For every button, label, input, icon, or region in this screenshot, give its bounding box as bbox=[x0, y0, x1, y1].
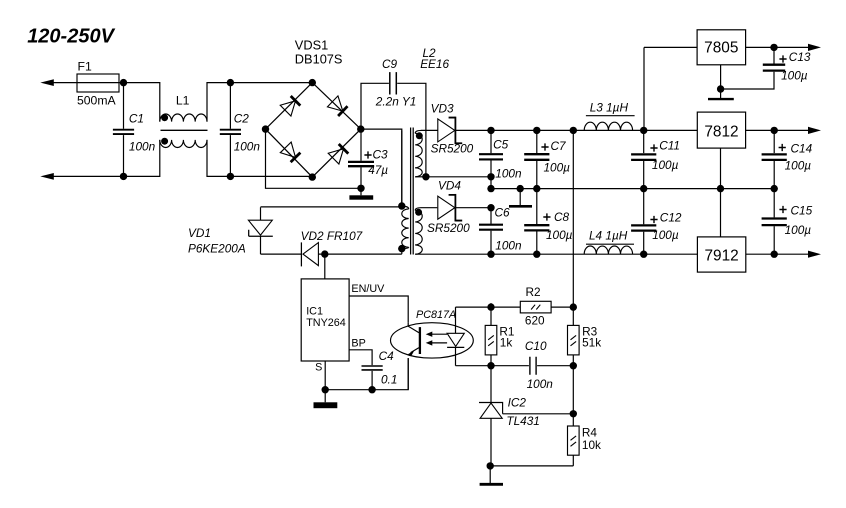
node C7 top bbox=[533, 127, 540, 134]
wire 7805 feed bbox=[643, 47, 645, 130]
svg-text:C13: C13 bbox=[789, 50, 811, 64]
node C3 ground bbox=[357, 185, 364, 192]
diode VD2 bbox=[300, 242, 302, 266]
node feedback tap bbox=[570, 127, 577, 134]
node R3 bottom bbox=[570, 362, 577, 369]
svg-text:620: 620 bbox=[525, 314, 545, 328]
wire C9 right to secondary common bbox=[397, 83, 426, 177]
wire L1 bottom out bbox=[207, 140, 312, 177]
ground secondary TL431 bbox=[489, 466, 491, 483]
wire node A bbox=[426, 176, 491, 178]
capacitor C3 bbox=[348, 162, 374, 166]
ground primary below C3 bbox=[360, 188, 362, 195]
svg-text:100n: 100n bbox=[527, 377, 554, 391]
wire clamp bottom left bbox=[261, 253, 302, 255]
arrow 5V output bbox=[808, 44, 821, 51]
wire top rail bbox=[456, 129, 698, 131]
svg-text:L1: L1 bbox=[176, 93, 190, 107]
node bridge right bbox=[357, 125, 364, 132]
svg-text:VD3: VD3 bbox=[431, 102, 454, 116]
inductor L3 bbox=[584, 122, 632, 130]
ground secondary mid bbox=[519, 189, 521, 206]
svg-text:100µ: 100µ bbox=[544, 161, 571, 175]
pin S wire bbox=[324, 361, 326, 390]
wire top AC from arrow to fuse bbox=[46, 82, 77, 84]
inductor L4 bbox=[584, 246, 632, 254]
svg-text:F1: F1 bbox=[78, 60, 92, 74]
svg-text:100µ: 100µ bbox=[546, 228, 573, 242]
secondary winding top bbox=[415, 130, 421, 133]
node L3 out bbox=[640, 127, 647, 134]
bridge diode bottom-left bbox=[280, 142, 301, 163]
svg-text:100µ: 100µ bbox=[652, 158, 679, 172]
node C6 bottom bbox=[487, 251, 494, 258]
wire VD4 cathode bbox=[456, 207, 492, 209]
node R1 bottom bbox=[487, 362, 494, 369]
svg-text:120-250V: 120-250V bbox=[27, 26, 115, 48]
diode VD4 schottky bbox=[438, 194, 462, 222]
resistor R2 bbox=[491, 306, 520, 308]
svg-text:100n: 100n bbox=[495, 167, 522, 181]
svg-text:VDS1: VDS1 bbox=[295, 38, 328, 53]
bridge diamond wires bbox=[266, 83, 361, 178]
svg-text:500mA: 500mA bbox=[77, 94, 116, 108]
wire 7805 input bbox=[644, 46, 697, 48]
svg-text:IC2: IC2 bbox=[508, 395, 527, 409]
svg-text:VD2 FR107: VD2 FR107 bbox=[301, 229, 363, 243]
wire stub above R2 node bbox=[490, 303, 492, 307]
wire TL431 ref bbox=[503, 413, 574, 415]
node bridge top bbox=[309, 79, 316, 86]
L1 core line bbox=[161, 129, 208, 131]
wire clamp top bbox=[261, 206, 402, 208]
node C1 bottom bbox=[120, 173, 127, 180]
arrow -12V output bbox=[808, 251, 821, 258]
svg-text:TNY264: TNY264 bbox=[306, 317, 346, 329]
svg-text:100µ: 100µ bbox=[785, 223, 812, 237]
svg-text:100n: 100n bbox=[234, 139, 261, 153]
svg-text:L4 1µH: L4 1µH bbox=[589, 229, 628, 243]
node bridge bottom bbox=[309, 173, 316, 180]
svg-text:IC1: IC1 bbox=[306, 306, 323, 318]
capacitor C8 bbox=[536, 189, 538, 225]
wire VD4 anode bbox=[421, 207, 437, 209]
svg-text:7805: 7805 bbox=[704, 40, 738, 57]
svg-text:S: S bbox=[315, 362, 322, 374]
svg-text:EN/UV: EN/UV bbox=[351, 283, 385, 295]
arrow 12V output bbox=[808, 127, 821, 134]
node R2 right bbox=[570, 303, 577, 310]
svg-text:TL431: TL431 bbox=[506, 414, 539, 428]
node gnd mid bbox=[517, 185, 524, 192]
node C5 mid bbox=[487, 185, 494, 192]
wire C5 bottom to mid rail bbox=[490, 177, 492, 189]
svg-text:C15: C15 bbox=[791, 204, 813, 218]
wire gnd3 to R4 bbox=[490, 465, 573, 467]
capacitor C9 bbox=[390, 72, 397, 94]
node C4 gnd bbox=[368, 386, 375, 393]
capacitor C6 bbox=[490, 208, 492, 224]
regulator 7812 bbox=[697, 112, 745, 148]
pin EN/UV wire bbox=[349, 296, 408, 323]
plus sign C7 bbox=[541, 143, 548, 150]
node ref bbox=[570, 410, 577, 417]
secondary winding bottom bbox=[415, 208, 421, 211]
svg-text:VD1: VD1 bbox=[188, 226, 211, 240]
node 7812 gnd bbox=[717, 185, 724, 192]
capacitor C7 bbox=[536, 130, 538, 153]
L1 polarity dot bottom bbox=[161, 138, 168, 145]
node S gnd bbox=[322, 386, 329, 393]
ground 7805 bbox=[708, 98, 734, 100]
input terminal arrow top bbox=[40, 79, 54, 86]
wire LED cathode to fb node bbox=[456, 365, 492, 367]
node C11 mid bbox=[640, 185, 647, 192]
wire bottom rail bbox=[491, 253, 697, 255]
wire L1 top out bbox=[207, 83, 312, 122]
L4 label underline bbox=[586, 243, 634, 245]
plus sign C12 bbox=[650, 216, 657, 223]
svg-text:C12: C12 bbox=[660, 211, 682, 225]
primary dot top bbox=[398, 202, 405, 209]
opto light arrows bbox=[431, 333, 447, 335]
svg-text:C11: C11 bbox=[659, 139, 680, 153]
svg-text:100µ: 100µ bbox=[781, 69, 808, 83]
node R2 left bbox=[487, 303, 494, 310]
wire R3 to ref node bbox=[572, 366, 574, 414]
svg-text:C7: C7 bbox=[551, 139, 567, 153]
node L4 out bbox=[640, 251, 647, 258]
capacitor C4 bbox=[362, 366, 383, 370]
wire bridge plus up to C9 bbox=[361, 83, 389, 129]
wire LED anode to R-node bbox=[456, 306, 492, 308]
node C1 top bbox=[120, 79, 127, 86]
wire bridge plus down to C3 bbox=[360, 129, 362, 161]
bridge diode top-left bbox=[280, 95, 301, 116]
IC2 TL431 symbol bbox=[479, 402, 496, 404]
wire VD3 anode bbox=[421, 129, 438, 131]
capacitor C10 bbox=[530, 357, 536, 375]
svg-text:SR5200: SR5200 bbox=[427, 221, 470, 235]
node C2 bottom bbox=[227, 173, 234, 180]
node A end bbox=[487, 173, 494, 180]
wire 7912 output bbox=[746, 253, 810, 255]
node TL431 anode gnd bbox=[487, 462, 494, 469]
svg-text:C14: C14 bbox=[791, 142, 813, 156]
secondary bottom phasing dot bbox=[415, 209, 422, 216]
capacitor C12 bbox=[643, 189, 645, 225]
wire mid rail bbox=[491, 188, 774, 190]
svg-text:C5: C5 bbox=[493, 138, 509, 152]
svg-text:C10: C10 bbox=[525, 339, 547, 353]
inductor L1 bottom winding bbox=[160, 140, 207, 148]
wire 7805 output bbox=[746, 46, 810, 48]
fuse F1 bbox=[77, 82, 119, 84]
diode VD3 schottky bbox=[438, 117, 462, 145]
wire C10 right bbox=[537, 365, 573, 367]
svg-text:10k: 10k bbox=[582, 438, 601, 452]
svg-text:VD4: VD4 bbox=[438, 179, 461, 193]
wire bridge minus to ground bbox=[266, 129, 362, 188]
capacitor C14 bbox=[773, 130, 775, 153]
transformer core bbox=[410, 128, 412, 255]
capacitor C13 bbox=[773, 47, 775, 63]
svg-text:47µ: 47µ bbox=[368, 163, 388, 177]
node 7805 gnd bbox=[717, 85, 724, 92]
svg-text:7912: 7912 bbox=[704, 247, 738, 264]
ground primary below S bbox=[324, 390, 326, 403]
IC IC1 TNY264 box bbox=[301, 279, 349, 361]
wire C10 left bbox=[491, 365, 529, 367]
wire 7912 gnd pin bbox=[720, 189, 722, 237]
wire top AC fuse to L1 bbox=[119, 83, 160, 122]
svg-text:PC817A: PC817A bbox=[416, 309, 456, 321]
wire TL431 cathode bbox=[490, 366, 492, 403]
wire 7805 gnd pin bbox=[720, 65, 722, 98]
capacitor C1 bbox=[123, 83, 125, 129]
node C2 top bbox=[227, 79, 234, 86]
wire C4 bottom bbox=[371, 371, 373, 390]
svg-text:100µ: 100µ bbox=[785, 158, 812, 172]
primary winding bbox=[401, 130, 403, 206]
wire DC plus to primary top bbox=[361, 129, 402, 206]
L1 polarity dot top bbox=[161, 114, 168, 121]
pin BP wire bbox=[349, 350, 372, 365]
optocoupler body bbox=[391, 323, 474, 358]
node C5 top bbox=[487, 127, 494, 134]
plus sign C3 bbox=[364, 151, 371, 158]
wire 7812 gnd pin bbox=[720, 148, 722, 189]
svg-text:C2: C2 bbox=[234, 111, 250, 125]
svg-text:EE16: EE16 bbox=[420, 57, 449, 71]
svg-text:C3: C3 bbox=[373, 148, 389, 162]
capacitor C11 bbox=[643, 130, 645, 153]
node drain bbox=[321, 250, 328, 257]
resistor R1 bbox=[490, 307, 492, 325]
svg-text:DB107S: DB107S bbox=[295, 52, 343, 67]
node -12V out bbox=[771, 251, 778, 258]
resistor R4 bbox=[572, 414, 574, 426]
wire feedback column bbox=[572, 130, 574, 307]
node C14 bottom bbox=[771, 185, 778, 192]
capacitor C2 bbox=[229, 83, 231, 129]
opto transistor bbox=[419, 327, 421, 354]
plus sign C15 bbox=[779, 206, 786, 213]
plus sign C14 bbox=[779, 144, 786, 151]
plus sign C13 bbox=[779, 55, 786, 62]
node C8 bottom bbox=[533, 251, 540, 258]
svg-text:C9: C9 bbox=[382, 57, 398, 71]
regulator 7805 bbox=[697, 30, 746, 65]
svg-text:1k: 1k bbox=[500, 336, 513, 350]
capacitor C15 bbox=[773, 189, 775, 218]
svg-text:0.1: 0.1 bbox=[381, 373, 397, 387]
diode VD1 TVS bbox=[260, 207, 262, 220]
wire 7812 output bbox=[746, 129, 810, 131]
svg-text:L3 1µH: L3 1µH bbox=[590, 101, 629, 115]
svg-text:C4: C4 bbox=[379, 349, 395, 363]
svg-text:R2: R2 bbox=[526, 285, 541, 299]
inductor L1 top winding bbox=[160, 114, 207, 122]
wire primary bottom bbox=[401, 249, 403, 255]
node 5V out bbox=[770, 44, 777, 51]
node bridge left bbox=[262, 125, 269, 132]
svg-text:P6KE200A: P6KE200A bbox=[188, 242, 246, 256]
svg-text:100n: 100n bbox=[495, 239, 522, 253]
wire C3 bottom bbox=[360, 167, 362, 188]
capacitor C5 bbox=[490, 130, 492, 153]
L3 label underline bbox=[586, 115, 635, 117]
opto LED bbox=[455, 307, 457, 333]
node C7 mid bbox=[533, 185, 540, 192]
bridge diode top-right bbox=[327, 96, 348, 117]
svg-text:51k: 51k bbox=[582, 336, 601, 350]
secondary top phasing dot bbox=[416, 132, 423, 139]
svg-text:100n: 100n bbox=[129, 139, 156, 153]
svg-text:BP: BP bbox=[351, 338, 365, 350]
svg-text:C1: C1 bbox=[129, 111, 144, 125]
wire primary gnd line bbox=[325, 358, 408, 390]
input terminal arrow bottom bbox=[40, 173, 54, 180]
node 12V out bbox=[771, 127, 778, 134]
svg-text:2.2n Y1: 2.2n Y1 bbox=[375, 94, 416, 108]
bridge diode bottom-right bbox=[328, 143, 349, 164]
wire bottom AC from arrow to L1 bbox=[46, 140, 160, 177]
plus sign C11 bbox=[650, 144, 657, 151]
regulator 7912 bbox=[697, 237, 745, 272]
plus sign C8 bbox=[543, 213, 550, 220]
svg-text:C8: C8 bbox=[554, 210, 570, 224]
svg-text:C6: C6 bbox=[495, 206, 511, 220]
node VD4 out bbox=[487, 204, 494, 211]
svg-text:SR5200: SR5200 bbox=[431, 142, 474, 156]
wire drain pin bbox=[324, 254, 326, 279]
resistor R3 bbox=[572, 307, 574, 325]
node C9 to node A bbox=[422, 173, 429, 180]
svg-text:100µ: 100µ bbox=[652, 228, 679, 242]
svg-text:7812: 7812 bbox=[704, 123, 738, 140]
primary dot bottom bbox=[398, 245, 405, 252]
